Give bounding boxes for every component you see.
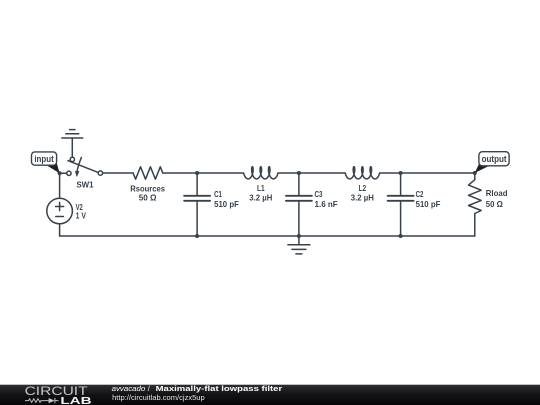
wire (Rload to bottom rail) bbox=[474, 214, 476, 237]
wire (node C3 to L2) bbox=[299, 172, 345, 174]
ground (below C3) bbox=[288, 236, 310, 254]
footer bar bbox=[0, 385, 540, 405]
wire (L1 to node C3) bbox=[278, 172, 299, 174]
wire (output node down to Rload) bbox=[474, 173, 476, 180]
svg-text:SW1: SW1 bbox=[76, 180, 93, 190]
junction (output node) bbox=[473, 171, 477, 175]
capacitor C3 bbox=[286, 173, 312, 236]
resistor Rsources bbox=[133, 167, 163, 179]
junction (input node) bbox=[58, 171, 62, 175]
svg-text:C2: C2 bbox=[416, 189, 424, 199]
resistor Rload bbox=[469, 180, 482, 214]
junction (node C3 top) bbox=[297, 171, 301, 175]
wire (node C1 to L1) bbox=[197, 172, 244, 174]
svg-text:50 Ω: 50 Ω bbox=[139, 192, 157, 202]
svg-text:LAB: LAB bbox=[60, 396, 92, 405]
svg-text:50 Ω: 50 Ω bbox=[486, 199, 503, 209]
wire (bottom rail) bbox=[60, 235, 475, 237]
junction (node C1 bottom) bbox=[195, 234, 199, 238]
svg-text:3.2 µH: 3.2 µH bbox=[351, 192, 374, 202]
node output flag bbox=[475, 152, 509, 173]
wire (node C2 to output node) bbox=[401, 172, 475, 174]
wire (L2 to node C2) bbox=[380, 172, 401, 174]
switch SW1 bbox=[67, 157, 103, 176]
logo doodle wire bbox=[25, 398, 59, 403]
wire (Rsources to node C1) bbox=[163, 172, 197, 174]
svg-text:1.6 nF: 1.6 nF bbox=[315, 199, 338, 209]
svg-text:3.2 µH: 3.2 µH bbox=[249, 192, 272, 202]
wire (V2 to bottom rail) bbox=[59, 224, 61, 236]
junction (node C2 bottom) bbox=[399, 234, 403, 238]
inductor L2 bbox=[345, 167, 379, 179]
svg-text:1 V: 1 V bbox=[76, 211, 87, 221]
capacitor C2 bbox=[388, 173, 414, 236]
capacitor C1 bbox=[184, 173, 210, 236]
logo diode bbox=[49, 398, 55, 403]
svg-text:C1: C1 bbox=[214, 189, 222, 199]
svg-text:http://circuitlab.com/cjzx5up: http://circuitlab.com/cjzx5up bbox=[112, 393, 205, 402]
svg-text:510 pF: 510 pF bbox=[214, 199, 239, 209]
svg-text:510 pF: 510 pF bbox=[416, 199, 441, 209]
wire (input node to SW1 left terminal) bbox=[60, 172, 67, 174]
node input flag bbox=[32, 152, 60, 173]
svg-text:C3: C3 bbox=[315, 189, 323, 199]
junction (node C2 top) bbox=[399, 171, 403, 175]
svg-text:output: output bbox=[482, 154, 507, 164]
voltage source V2 bbox=[47, 198, 73, 224]
wire (input node down to V2) bbox=[59, 173, 61, 198]
inductor L1 bbox=[244, 167, 278, 179]
svg-text:input: input bbox=[34, 154, 54, 164]
junction (node C3 bottom) bbox=[297, 234, 301, 238]
wire (SW1 right terminal to Rsources) bbox=[103, 172, 133, 174]
junction (node C1 top) bbox=[195, 171, 199, 175]
ground (above SW1) bbox=[62, 130, 83, 158]
svg-text:Rload: Rload bbox=[486, 188, 508, 198]
